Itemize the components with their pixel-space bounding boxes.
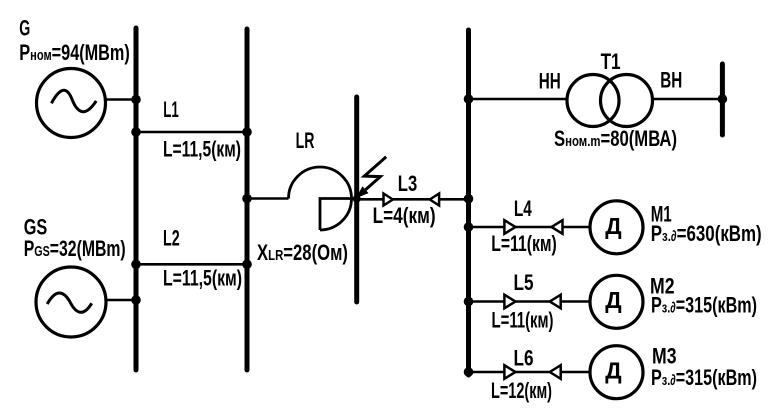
svg-text:L2: L2 — [163, 226, 180, 251]
svg-text:L=11(км): L=11(км) — [492, 308, 554, 333]
svg-text:L=12(км): L=12(км) — [491, 378, 552, 403]
svg-text:T1: T1 — [601, 49, 621, 74]
svg-text:L5: L5 — [514, 270, 534, 295]
svg-text:L=4(км): L=4(км) — [373, 203, 436, 228]
svg-text:L1: L1 — [163, 97, 179, 122]
svg-text:НН: НН — [539, 69, 561, 94]
svg-text:LR: LR — [296, 128, 315, 153]
svg-text:G: G — [19, 16, 30, 41]
svg-text:L=11,5(км): L=11,5(км) — [163, 136, 241, 161]
svg-text:L4: L4 — [514, 196, 533, 221]
svg-text:L3: L3 — [398, 171, 417, 196]
svg-text:Д: Д — [605, 213, 621, 239]
svg-text:L=11(км): L=11(км) — [491, 231, 557, 256]
svg-text:L6: L6 — [514, 346, 534, 371]
svg-text:Д: Д — [605, 287, 621, 313]
svg-text:ВН: ВН — [660, 68, 682, 93]
svg-text:L=11,5(км): L=11,5(км) — [163, 266, 242, 291]
svg-text:Д: Д — [605, 358, 621, 384]
